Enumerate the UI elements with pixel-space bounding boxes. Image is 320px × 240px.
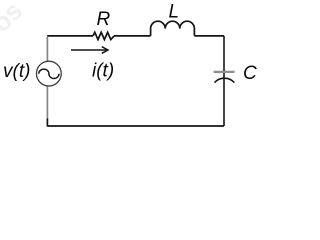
svg-text:R: R [97,9,111,30]
wire left lower lead [46,118,48,127]
svg-text:os: os [0,0,28,38]
wire resistor-to-inductor [114,35,151,37]
wire top-left segment [47,35,93,37]
inductor L1 [151,21,195,36]
wire inductor-to-corner [194,35,224,37]
capacitor C1 curved plate [215,78,235,82]
wire right vertical [223,36,225,126]
wire bottom [47,125,224,127]
capacitor C1 top plate [214,71,235,73]
svg-text:L: L [169,1,180,22]
resistor R1 [93,32,114,39]
wire left upper lead [46,37,48,62]
svg-text:v(t): v(t) [3,61,30,82]
voltage source V1 [36,61,61,86]
current arrow i(t) [71,49,107,51]
svg-text:C: C [243,63,257,84]
svg-text:i(t): i(t) [92,61,114,82]
